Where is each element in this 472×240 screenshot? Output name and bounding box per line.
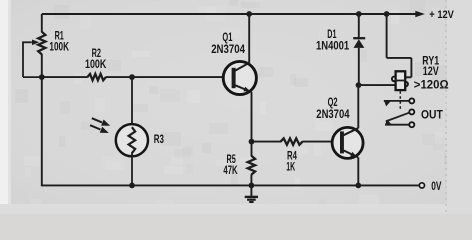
+12V supply arrow and label [415,9,454,21]
node: R3 top junction [129,74,135,80]
node: R5/ground rail junction [249,183,255,189]
node: Q1 collector rail junction [246,11,252,17]
potentiometer R1 (zigzag with wiper arrow) [23,14,45,77]
dashed actuator link [399,91,401,110]
svg-text:1K: 1K [286,159,295,173]
R2 labels [85,46,107,71]
wire: R3 bottom lead [131,153,133,186]
R5 labels [223,152,237,177]
photoresistor R3 (LDR) [116,124,148,156]
resistor R2 [87,74,106,80]
R3 light arrows [90,118,110,133]
wire: base node line [42,76,88,78]
svg-text:47K: 47K [223,163,237,177]
wire: R1 wiper return loop [23,41,42,77]
relay contact NC arm [384,98,415,106]
resistor R5 [248,156,255,186]
resistor R4 [281,138,303,144]
transistor Q1 2N3704 [223,61,256,94]
svg-text:100K: 100K [85,57,107,71]
0V terminal and label [419,179,441,193]
svg-text:OUT: OUT [421,108,443,122]
R1 value labels [49,29,69,54]
svg-text:+ 12V: + 12V [429,9,454,21]
svg-text:>120Ω: >120Ω [414,78,449,92]
relay coil RY1 [392,71,408,90]
svg-text:2N3704: 2N3704 [316,107,349,121]
Q2 labels [316,95,349,121]
svg-text:1N4001: 1N4001 [316,39,349,53]
node: D1 top rail junction [356,11,362,17]
ground symbol [245,185,258,202]
wire: emitter node to R4 [252,141,282,143]
wire: +12V top supply rail [42,13,418,15]
wire: relay feed from rail [387,14,412,77]
R4 labels [286,149,297,174]
svg-text:100K: 100K [49,40,69,54]
R3 label [154,132,164,146]
svg-text:12V: 12V [423,64,439,78]
node: Q2 emitter rail junction [355,183,361,189]
OUT label [421,108,443,122]
wire: 0V bottom rail [42,184,420,186]
node: relay feed rail junction [384,11,390,17]
wire: R2 to Q1 base [106,76,232,78]
relay contact moving arm and NO terminal [386,109,415,121]
wire: Q1 collector to rail [248,14,250,63]
wire: Q2 emitter down to rail [357,157,359,185]
relay contact common arm [385,120,414,128]
svg-text:R3: R3 [154,132,164,146]
Q1 labels [211,30,245,56]
transistor Q2 2N3704 [332,127,363,158]
node: D1/Q2/relay coil junction [356,82,362,88]
svg-text:0V: 0V [431,179,441,193]
node: R1/R2/wiper junction [39,74,45,80]
wire: Q1 emitter down [251,92,253,156]
wire: Q2 collector up to node [357,85,359,128]
svg-text:2N3704: 2N3704 [211,42,245,56]
wire: coil to D1 node [359,84,396,86]
node: R4 take-off junction [249,139,255,145]
node: R3 bottom rail junction [129,183,135,189]
diode D1 1N4001 [353,14,365,85]
D1 labels [316,27,349,53]
RY1 labels [414,53,449,91]
wire: left vertical to 0V rail [41,77,43,186]
wire: R3 top lead [131,77,133,128]
wire: R4 to Q2 base [302,141,340,143]
